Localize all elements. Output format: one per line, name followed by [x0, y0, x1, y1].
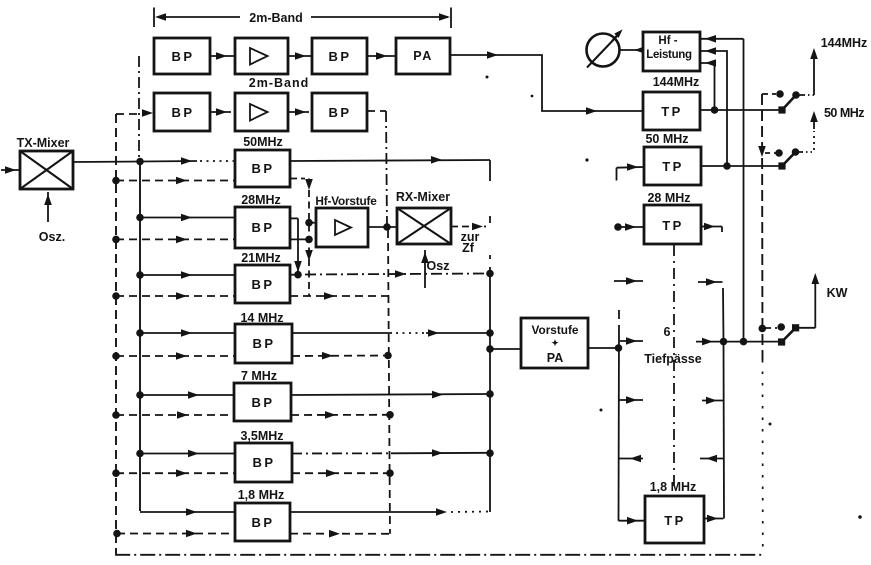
svg-text:✦: ✦ [551, 338, 559, 348]
svg-text:BP: BP [252, 336, 275, 351]
svg-text:144MHz: 144MHz [821, 36, 868, 50]
svg-text:RX-Mixer: RX-Mixer [396, 190, 450, 204]
svg-text:BP: BP [328, 49, 351, 64]
svg-text:TP: TP [664, 513, 686, 528]
svg-text:21MHz: 21MHz [241, 251, 281, 265]
svg-text:KW: KW [827, 286, 848, 300]
svg-text:BP: BP [251, 277, 274, 292]
svg-text:2m-Band: 2m-Band [249, 11, 302, 25]
svg-text:BP: BP [328, 105, 351, 120]
svg-text:BP: BP [251, 161, 274, 176]
svg-text:3,5MHz: 3,5MHz [240, 429, 283, 443]
svg-text:50MHz: 50MHz [243, 135, 283, 149]
svg-text:BP: BP [251, 220, 274, 235]
svg-text:1,8 MHz: 1,8 MHz [238, 488, 285, 502]
svg-text:Hf-Vorstufe: Hf-Vorstufe [315, 194, 377, 208]
svg-text:TP: TP [661, 104, 683, 119]
svg-text:14 MHz: 14 MHz [240, 311, 283, 325]
svg-text:Zf: Zf [462, 241, 475, 255]
svg-text:PA: PA [413, 49, 432, 63]
svg-text:BP: BP [252, 455, 275, 470]
svg-text:Vorstufe: Vorstufe [532, 323, 579, 337]
svg-text:7 MHz: 7 MHz [241, 369, 277, 383]
svg-text:TP: TP [662, 218, 684, 233]
svg-text:TP: TP [662, 159, 684, 174]
svg-text:Leistung: Leistung [646, 49, 692, 61]
svg-text:2m-Band: 2m-Band [249, 76, 309, 90]
svg-text:Osz: Osz [427, 259, 450, 273]
svg-text:144MHz: 144MHz [653, 75, 700, 89]
svg-text:BP: BP [251, 395, 274, 410]
svg-text:BP: BP [171, 105, 194, 120]
svg-text:50 MHz: 50 MHz [645, 132, 688, 146]
svg-text:28MHz: 28MHz [241, 193, 281, 207]
svg-text:TX-Mixer: TX-Mixer [17, 136, 70, 150]
svg-text:PA: PA [547, 351, 563, 365]
svg-text:BP: BP [171, 49, 194, 64]
svg-text:Tiefpässe: Tiefpässe [644, 352, 701, 366]
svg-text:1,8 MHz: 1,8 MHz [650, 480, 697, 494]
svg-text:Hf -: Hf - [658, 35, 677, 47]
svg-text:50 MHz: 50 MHz [824, 106, 864, 120]
svg-text:28 MHz: 28 MHz [647, 191, 690, 205]
svg-text:Osz.: Osz. [39, 230, 65, 244]
svg-text:BP: BP [251, 515, 274, 530]
svg-text:6: 6 [664, 325, 671, 339]
